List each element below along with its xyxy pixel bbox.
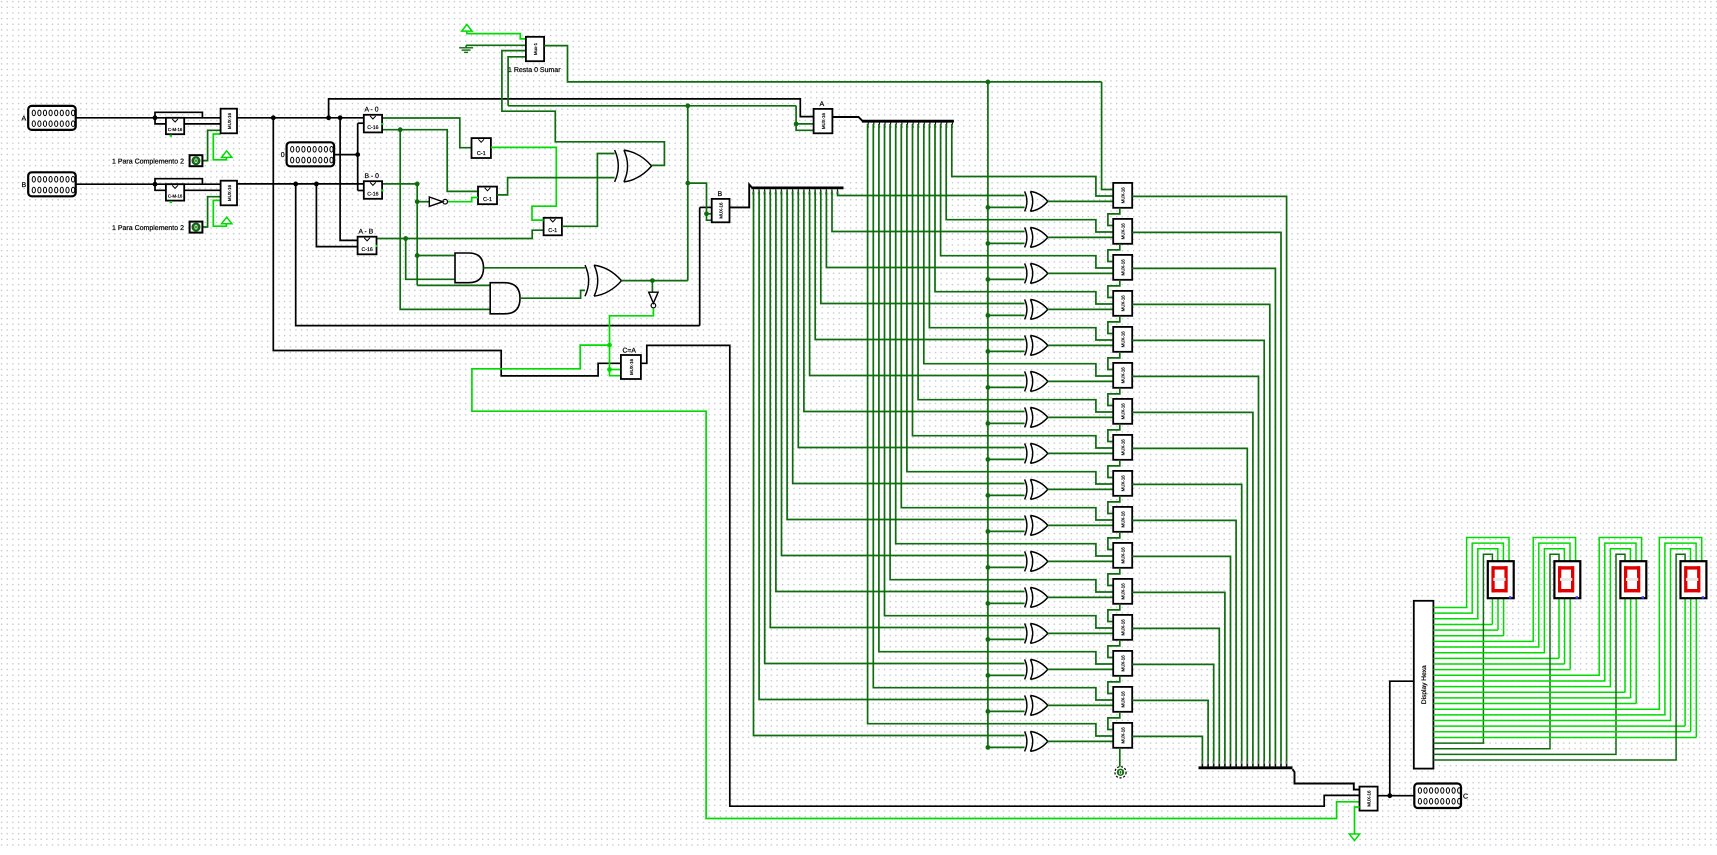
wire XOR 8 out to result mux 8	[1048, 488, 1113, 491]
wire XOR 12 out to result mux 12	[1048, 632, 1113, 635]
svg-text:B: B	[22, 182, 27, 189]
xor gate bit 13	[1025, 659, 1027, 679]
wire bottom mux out to C and display	[1378, 795, 1415, 797]
seven segment display 3	[1620, 561, 1646, 598]
result mux 11 (MUX-16)	[1113, 579, 1132, 604]
wire display3 segment 0 over-loop	[1433, 538, 1701, 710]
wire result mux 12 out	[1132, 628, 1219, 766]
wire splitter A bit 8 to result mux 7	[913, 124, 1114, 448]
wire add/sub to first result mux	[1102, 82, 1114, 190]
wire add/sub tap to XOR 3	[988, 314, 1025, 316]
result mux 15 (MUX-16)	[1113, 723, 1132, 748]
wire display2 segment 2 over-loop	[1433, 549, 1630, 687]
wire select chain 5 to 6	[1108, 388, 1120, 406]
wire result mux 0 out	[1132, 196, 1286, 766]
wire arrow pin to bottom mux select	[1355, 807, 1360, 834]
xor gate bit 4	[1025, 335, 1027, 355]
wire select chain 7 to 8	[1108, 460, 1120, 478]
wire add/sub tap to XOR 6	[988, 422, 1025, 424]
wire splitter B bit 5 to XOR 10	[782, 191, 1025, 556]
wire splitter B bit 2 to XOR 13	[765, 191, 1025, 664]
svg-text:MUX-16: MUX-16	[1121, 295, 1126, 312]
wire select chain 12 to 13	[1108, 640, 1120, 658]
result mux 0 (MUX-16)	[1113, 183, 1132, 208]
not gate NOT1	[429, 197, 443, 206]
wire Resta mux out (add/sub select)	[544, 46, 1102, 82]
wire splitter A bit 3 to result mux 12	[885, 124, 1114, 628]
wire add/sub tap to XOR 7	[988, 458, 1025, 460]
wire C-M-16 A out to MUX	[184, 123, 220, 125]
wire B bus to comparator A-B	[316, 184, 357, 247]
constant 0 bus	[334, 154, 358, 156]
wire button A to MUX select	[202, 130, 220, 160]
wire display1 segment 5 bottom pin	[1433, 669, 1570, 671]
button 1 Para Complemento 2 (A)	[190, 155, 203, 166]
wire display1 segment 0 over-loop	[1433, 538, 1575, 642]
wire display0 segment 1 over-loop	[1433, 543, 1503, 613]
wire C=A out to bottom mux	[641, 345, 1360, 806]
wire NOT2 out to C=A mux select	[610, 308, 654, 369]
wire splitter B bit 1 to XOR 14	[759, 191, 1025, 700]
wire result mux 8 out	[1132, 484, 1242, 766]
wire XOR 1 out to result mux 1	[1048, 236, 1113, 239]
seven segment display 1	[1488, 561, 1514, 598]
seven segment display 4	[1681, 561, 1707, 598]
output pin C (16-bit)	[1414, 784, 1461, 809]
mux MUX-16 (B select)	[221, 181, 237, 206]
svg-text:C-1: C-1	[483, 197, 492, 203]
wire display0 segment 3 bottom pin	[1433, 624, 1492, 626]
wire select chain 11 to 12	[1108, 604, 1120, 622]
wire splitter B bit 8 to XOR 7	[798, 191, 1024, 448]
wire splitter B bit 10 to XOR 5	[810, 191, 1025, 376]
svg-text:1 Para Complemento 2: 1 Para Complemento 2	[112, 157, 184, 165]
mux output select (bottom)	[1360, 787, 1378, 811]
pin arrow (A complement select)	[222, 151, 232, 158]
xor gate bit 14	[1025, 695, 1027, 715]
wire select chain to LED	[1119, 748, 1121, 767]
wire XOR 15 out to result mux 15	[1048, 740, 1113, 743]
svg-text:C-16: C-16	[361, 247, 372, 253]
wire B-0 out	[382, 183, 417, 185]
and gate AND1	[455, 253, 484, 283]
wire splitter B bit 4 to XOR 11	[776, 191, 1025, 592]
svg-text:MUX-16: MUX-16	[629, 358, 634, 375]
xor gate bit 12	[1025, 623, 1027, 643]
wire A bus	[237, 117, 364, 119]
svg-text:MUX-16: MUX-16	[1121, 583, 1126, 600]
wire splitter A bit 10 to result mux 5	[924, 124, 1113, 376]
wire select chain 9 to 10	[1108, 532, 1120, 550]
wire splitter B bit 3 to XOR 12	[770, 191, 1024, 628]
wire add/sub vertical to XOR column	[987, 82, 989, 748]
splitter B bar	[751, 186, 843, 189]
wire add/sub tap to XOR 14	[988, 710, 1025, 712]
wire result mux 4 out	[1132, 340, 1264, 766]
xor gate bit 1	[1025, 227, 1027, 247]
svg-text:MUX-16: MUX-16	[1121, 691, 1126, 708]
wire result mux 13 out	[1132, 664, 1214, 766]
subcircuit Display Hexa	[1414, 601, 1434, 769]
svg-text:C-16: C-16	[367, 192, 378, 198]
wire display1 dark segment loop	[1433, 554, 1559, 749]
wire display0 segment 0 over-loop	[1433, 538, 1509, 608]
result mux 4 (MUX-16)	[1113, 327, 1132, 352]
wire display2 segment 3 bottom pin	[1433, 691, 1625, 693]
svg-text:MUX-16: MUX-16	[1121, 511, 1126, 528]
pin arrow (B complement select)	[222, 217, 232, 224]
svg-text:Display Hexa: Display Hexa	[1421, 665, 1428, 704]
wire select chain 1 to 2	[1108, 244, 1120, 262]
wire add/sub tap to XOR 8	[988, 494, 1025, 496]
wire splitter B bit 9 to XOR 6	[804, 191, 1025, 412]
splitter A bar	[862, 120, 954, 123]
mux MUX-16 (A select)	[221, 109, 237, 134]
xor gate bit 8	[1025, 479, 1027, 499]
xor gate bit 9	[1025, 515, 1027, 535]
xor gate bit 6	[1025, 407, 1027, 427]
wire display3 segment 4 bottom pin	[1433, 731, 1690, 733]
wire result bus to bottom mux	[1293, 769, 1360, 789]
wire display3 dark segment loop	[1433, 554, 1685, 760]
subcircuit C-1 no2	[478, 187, 497, 205]
wire result mux 10 out	[1132, 556, 1230, 766]
svg-text:MUX-16: MUX-16	[1121, 403, 1126, 420]
input pin B (16-bit)	[28, 172, 75, 196]
result mux 3 (MUX-16)	[1113, 291, 1132, 316]
wire A-B out to C-1 no3	[377, 230, 544, 238]
wire add/sub tap to XOR 1	[988, 242, 1025, 244]
result mux 9 (MUX-16)	[1113, 507, 1132, 532]
svg-text:B - 0: B - 0	[365, 173, 380, 180]
ground wire to Resta mux	[466, 44, 526, 46]
subcircuit C-M-16 (A complementer)	[166, 118, 184, 134]
splitter result bar	[1199, 766, 1293, 769]
wire C-M-16 B out to MUX	[184, 189, 220, 191]
wire XOR 9 out to result mux 9	[1048, 524, 1113, 527]
wire splitter B bit 7 to XOR 8	[793, 191, 1025, 484]
wire display1 segment 2 over-loop	[1433, 549, 1564, 653]
wire XOR 6 out to result mux 6	[1048, 416, 1113, 419]
wire add/sub tap to XOR 11	[988, 602, 1025, 604]
wire MUX B bottom pin to pin arrow	[213, 200, 226, 226]
wire display1 segment 3 bottom pin	[1433, 657, 1559, 659]
wire A-B out branch to AND1	[406, 239, 455, 280]
wire display2 segment 5 bottom pin	[1433, 703, 1636, 705]
result mux 14 (MUX-16)	[1113, 687, 1132, 712]
wire add/sub tap to XOR 13	[988, 674, 1025, 676]
svg-text:MUX-16: MUX-16	[1121, 619, 1126, 636]
xor gate bit 0	[1025, 191, 1027, 211]
wire display1 segment 4 bottom pin	[1433, 663, 1564, 665]
wire splitter A bit 9 to result mux 6	[918, 124, 1113, 412]
svg-text:C-M-16: C-M-16	[168, 127, 183, 132]
wire splitter B bit 13 to XOR 2	[826, 191, 1024, 268]
wire display2 segment 4 bottom pin	[1433, 697, 1630, 699]
result mux 6 (MUX-16)	[1113, 399, 1132, 424]
wire XOR 4 out to result mux 4	[1048, 344, 1113, 347]
wire splitter A bit 13 to result mux 2	[941, 124, 1114, 268]
svg-text:A: A	[22, 116, 27, 123]
svg-text:A - 0: A - 0	[365, 107, 379, 114]
wire A bus to C=A mux	[273, 118, 621, 376]
svg-text:0: 0	[281, 152, 285, 159]
svg-text:MUX-16: MUX-16	[1121, 259, 1126, 276]
wire AND2 out to XOR bottom	[520, 290, 585, 298]
wire select net to mux B pins	[688, 183, 712, 220]
wire A input to C-M-16 and MUX	[76, 117, 221, 119]
xor gate bit 15	[1025, 731, 1027, 751]
wire display3 segment 2 over-loop	[1433, 549, 1690, 721]
input pin A (16-bit)	[28, 106, 75, 130]
wire result mux 7 out	[1132, 448, 1247, 766]
wire result mux 14 out	[1132, 700, 1208, 766]
wire display0 segment 2 over-loop	[1433, 549, 1497, 619]
svg-text:MUX-16: MUX-16	[1121, 475, 1126, 492]
result mux 13 (MUX-16)	[1113, 651, 1132, 676]
svg-text:Mux-1: Mux-1	[533, 42, 538, 55]
wire add/sub tap to XOR 9	[988, 530, 1025, 532]
wire add/sub tap to XOR 5	[988, 386, 1025, 388]
svg-text:1 Para Complemento 2: 1 Para Complemento 2	[112, 224, 184, 232]
wire C-1 no1 out to C-1 no3	[491, 147, 556, 220]
wire splitter B bit 14 to XOR 1	[832, 191, 1025, 232]
wire splitter A bit 5 to result mux 10	[896, 124, 1113, 556]
wire add/sub tap to XOR 0	[988, 206, 1025, 208]
xor gate bit 7	[1025, 443, 1027, 463]
svg-text:C-1: C-1	[477, 151, 486, 157]
wire A-0 out2 branch to AND2	[400, 130, 490, 310]
wire select net horizontal to mux A pins	[508, 105, 796, 107]
wire AND1 out to XOR bottom	[484, 267, 586, 269]
wire display0 segment 4 bottom pin	[1433, 629, 1498, 631]
wire XOR 7 out to result mux 7	[1048, 452, 1113, 455]
wire B bus	[237, 183, 364, 185]
svg-text:MUX-16: MUX-16	[1121, 727, 1126, 744]
wire XOR 0 out to result mux 0	[1048, 200, 1113, 203]
result mux 8 (MUX-16)	[1113, 471, 1132, 496]
pin arrow (output select)	[1349, 834, 1359, 841]
wire select chain 6 to 7	[1108, 424, 1120, 442]
wire select chain 4 to 5	[1108, 352, 1120, 370]
wire splitter A bit 15 to result mux 0	[952, 124, 1113, 196]
svg-text:C-16: C-16	[367, 125, 378, 131]
pin arrow (Resta/Sumar)	[462, 25, 472, 32]
svg-text:C=A: C=A	[623, 347, 637, 354]
svg-text:MUX-16: MUX-16	[227, 112, 232, 129]
result mux 12 (MUX-16)	[1113, 615, 1132, 640]
svg-text:C-1: C-1	[548, 228, 557, 234]
wire C=A select to bottom mux select	[472, 345, 1360, 818]
wire add/sub tap to XOR 10	[988, 566, 1025, 568]
mux Resta 0 Sumar	[526, 37, 544, 61]
wire XOR 11 out to result mux 11	[1048, 596, 1113, 599]
wire select chain 14 to 15	[1108, 712, 1120, 730]
result mux 10 (MUX-16)	[1113, 543, 1132, 568]
xor gate bit 3	[1025, 299, 1027, 319]
wire XOR 5 out to result mux 5	[1048, 380, 1113, 383]
wire result mux 9 out	[1132, 520, 1236, 766]
svg-text:MUX-16: MUX-16	[821, 112, 826, 129]
svg-text:MUX-16: MUX-16	[1121, 439, 1126, 456]
wire select chain 2 to 3	[1108, 280, 1120, 298]
subcircuit C-1 no1	[472, 138, 491, 158]
wire pin arrow to Resta mux	[467, 32, 526, 39]
wire select chain 13 to 14	[1108, 676, 1120, 694]
svg-text:MUX-16: MUX-16	[1121, 547, 1126, 564]
wire splitter A bit 2 to result mux 13	[879, 124, 1113, 664]
wire splitter B bit 15 to XOR 0	[838, 191, 1025, 196]
ground	[465, 45, 467, 48]
svg-text:MUX-16: MUX-16	[1121, 367, 1126, 384]
result mux 1 (MUX-16)	[1113, 219, 1132, 244]
wire splitter A bit 6 to result mux 9	[901, 124, 1113, 520]
xor gate bit 11	[1025, 587, 1027, 607]
svg-text:A: A	[820, 101, 825, 108]
wire A-0 out2 to C-1 no2	[382, 130, 478, 192]
wire result mux 15 out	[1132, 736, 1202, 766]
xor gate bit 2	[1025, 263, 1027, 283]
wire mux B out to splitter B	[730, 185, 753, 208]
svg-text:MUX-16: MUX-16	[227, 184, 232, 201]
button 1 Para Complemento 2 (B)	[190, 222, 203, 233]
wire splitter A bit 4 to result mux 11	[890, 124, 1113, 592]
wire splitter A bit 11 to result mux 4	[929, 124, 1113, 340]
wire result mux 3 out	[1132, 304, 1270, 766]
svg-text:1 Resta 0 Sumar: 1 Resta 0 Sumar	[508, 67, 561, 74]
subcircuit C-M-16 (B complementer)	[166, 184, 184, 200]
wire B bus to mux B	[296, 184, 700, 326]
wire A-0 out1 to C-1 no1	[382, 118, 471, 148]
svg-text:MUX-16: MUX-16	[1121, 187, 1126, 204]
wire display0 segment 5 bottom pin	[1433, 635, 1503, 637]
svg-text:MUX-16: MUX-16	[719, 202, 724, 219]
wire add/sub tap to XOR 15	[988, 746, 1025, 748]
wire splitter B bit 0 to XOR 15	[754, 191, 1025, 736]
result mux 2 (MUX-16)	[1113, 255, 1132, 280]
xor gate XOR bottom (select logic)	[585, 265, 589, 296]
svg-text:A - B: A - B	[359, 229, 374, 236]
wire A bus to comparator A-B	[340, 118, 358, 241]
wire result mux 5 out	[1132, 376, 1258, 766]
and gate AND2	[490, 283, 520, 314]
not gate NOT2 (vertical)	[649, 292, 658, 303]
wire display0 dark segment loop	[1433, 554, 1492, 743]
constant 0 (16-bit)	[287, 142, 335, 166]
xor gate bit 5	[1025, 371, 1027, 391]
wire display2 dark segment loop	[1433, 554, 1625, 754]
wire add/sub tap to XOR 12	[988, 638, 1025, 640]
wire MUX A bottom pin to pin arrow	[213, 134, 226, 160]
wire select chain 3 to 4	[1108, 316, 1120, 334]
wire result mux 11 out	[1132, 592, 1225, 766]
wire XOR 2 out to result mux 2	[1048, 272, 1113, 275]
wire splitter A bit 0 to result mux 15	[868, 124, 1114, 736]
svg-text:MUX-16: MUX-16	[1121, 331, 1126, 348]
wire splitter A bit 12 to result mux 3	[935, 124, 1113, 304]
wire XOR bottom out / select net	[622, 280, 688, 282]
svg-text:MUX-16: MUX-16	[1121, 655, 1126, 672]
subcircuit C-1 no3	[544, 218, 562, 236]
svg-text:C: C	[1463, 793, 1468, 800]
wire C-1 no2 out to XOR top	[497, 178, 615, 195]
wire add/sub tap to XOR 4	[988, 350, 1025, 352]
wire B input to C-M-16 and MUX	[76, 183, 221, 185]
seven segment display 2	[1554, 561, 1580, 598]
wire select chain 10 to 11	[1108, 568, 1120, 586]
svg-text:MUX-16: MUX-16	[1367, 790, 1372, 807]
wire add/sub tap to XOR 2	[988, 278, 1025, 280]
svg-text:MUX-16: MUX-16	[1121, 223, 1126, 240]
wire XOR 10 out to result mux 10	[1048, 560, 1113, 563]
wire display3 segment 5 bottom pin	[1433, 737, 1696, 739]
wire splitter B bit 12 to XOR 3	[821, 191, 1025, 304]
wire select chain 0 to 1	[1108, 208, 1120, 226]
svg-text:B: B	[718, 191, 723, 198]
wire result mux 1 out	[1132, 232, 1281, 766]
wire XOR 13 out to result mux 13	[1048, 668, 1113, 671]
wire A bus upper branch to mux A	[329, 99, 814, 118]
wire select chain 8 to 9	[1108, 496, 1120, 514]
svg-text:C-M-16: C-M-16	[168, 193, 183, 198]
wire splitter B bit 11 to XOR 4	[815, 191, 1024, 340]
wire display2 segment 0 over-loop	[1433, 538, 1641, 676]
wire XOR top out to Resta mux	[502, 51, 665, 166]
wire display1 segment 1 over-loop	[1433, 543, 1570, 647]
result mux 7 (MUX-16)	[1113, 435, 1132, 460]
wire mux A out to splitter A	[832, 117, 862, 121]
wire NOT1 out to C-1 no2	[448, 198, 478, 202]
wire splitter B bit 6 to XOR 9	[787, 191, 1025, 520]
wire button B to MUX select	[202, 197, 220, 227]
xor gate XOR top (sign)	[615, 150, 619, 182]
wire C-1 no3 out to XOR top	[562, 154, 615, 227]
wire display2 segment 1 over-loop	[1433, 543, 1636, 681]
wire splitter A bit 1 to result mux 14	[873, 124, 1113, 700]
led select indicator	[1115, 767, 1126, 778]
wire XOR 3 out to result mux 3	[1048, 308, 1113, 311]
wire splitter A bit 7 to result mux 8	[907, 124, 1113, 484]
wire result mux 2 out	[1132, 268, 1275, 766]
wire splitter A bit 14 to result mux 1	[946, 124, 1113, 232]
result mux 5 (MUX-16)	[1113, 363, 1132, 388]
wire XOR 14 out to result mux 14	[1048, 704, 1113, 707]
wire display3 segment 1 over-loop	[1433, 543, 1696, 715]
wire result mux 6 out	[1132, 412, 1253, 766]
wire display3 segment 3 bottom pin	[1433, 725, 1685, 727]
xor gate bit 10	[1025, 551, 1027, 571]
